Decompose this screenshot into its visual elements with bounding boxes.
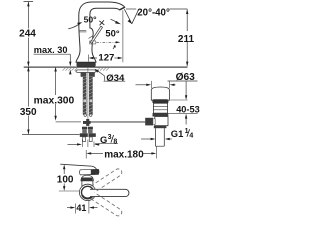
counter hatching [63, 67, 110, 70]
label 20deg-40deg [126, 7, 187, 18]
mounting nuts [81, 73, 95, 77]
svg-text:350: 350 [20, 107, 37, 118]
dimension 244 [19, 2, 36, 67]
svg-text:211: 211 [178, 34, 195, 45]
svg-text:Ø63: Ø63 [176, 72, 196, 83]
plan view: body [82, 181, 93, 189]
label G 3/8 [68, 134, 119, 147]
svg-text:4: 4 [189, 132, 193, 139]
lever horizontal phantom (dash-dot) [90, 41, 121, 44]
plan view: spout tube solid [90, 189, 129, 196]
drain tailpipe [156, 128, 165, 146]
svg-text:20°-40°: 20°-40° [137, 7, 170, 18]
label G 1 1/4 [141, 128, 193, 140]
spout tip cut [119, 7, 124, 10]
pivot rod nut [145, 118, 155, 126]
plan view: lever raised line [60, 164, 96, 169]
escutcheon base plate [77, 62, 96, 66]
mounting washer below deck [76, 70, 96, 73]
dimension 100 [57, 165, 79, 192]
label diameter 63 [136, 72, 198, 86]
tailpipe collar [154, 126, 167, 129]
label diameter 34 [95, 69, 126, 84]
pop-up horizontal rod [56, 121, 146, 123]
hose end connectors [80, 127, 96, 142]
faucet body and spout outline [76, 2, 125, 62]
lever handle (side view) [90, 26, 102, 43]
supply hoses (braided) [83, 77, 93, 116]
svg-text:50°: 50° [84, 14, 98, 24]
small arc arrow below phantom lever [113, 45, 116, 50]
svg-text:244: 244 [19, 29, 36, 40]
svg-text:8: 8 [113, 138, 117, 145]
svg-text:max. 30: max. 30 [34, 45, 68, 55]
dimension max.300 [34, 67, 75, 121]
pop-up vertical rod [87, 67, 89, 119]
svg-text:max.180: max.180 [104, 149, 144, 160]
svg-text:3: 3 [108, 134, 112, 141]
dimension max.180 [86, 147, 156, 161]
svg-text:Ø34: Ø34 [106, 73, 125, 84]
cross mark at lever tip [99, 20, 104, 25]
svg-text:127: 127 [98, 53, 114, 64]
plan view: base circle [79, 184, 95, 200]
20-40 degree V mark [124, 9, 138, 24]
dimension 127 [88, 10, 123, 63]
svg-text:40-53: 40-53 [176, 104, 200, 114]
svg-text:100: 100 [57, 174, 74, 185]
dimension 41 [67, 201, 98, 214]
label max. 30 [34, 45, 72, 74]
locking ring (dark band) [153, 113, 169, 116]
svg-text:G: G [100, 134, 107, 145]
deck line [24, 66, 188, 68]
bottom reference line (hose end level) [22, 133, 80, 135]
pop-up waste body [153, 103, 167, 113]
svg-text:max.300: max.300 [34, 95, 75, 106]
plan view: lever [80, 169, 99, 175]
plan view: spout swivel phantom upper [91, 169, 122, 192]
dimension 211 [178, 9, 195, 66]
body collar lines [79, 29, 86, 31]
dimension 40-53 [168, 81, 200, 125]
plan view: spout swivel phantom lower [91, 193, 122, 216]
right swivel arrow [111, 19, 121, 24]
lower waste body [155, 117, 168, 126]
rod coupler [86, 119, 89, 126]
svg-text:41: 41 [76, 203, 86, 213]
svg-text:G1: G1 [171, 128, 184, 139]
dimension 350 [20, 67, 37, 135]
plan view: cartridge dome [81, 175, 94, 181]
pop-up waste flange dome [151, 81, 169, 103]
left swivel arrow [68, 22, 82, 29]
svg-text:50°: 50° [105, 28, 119, 39]
